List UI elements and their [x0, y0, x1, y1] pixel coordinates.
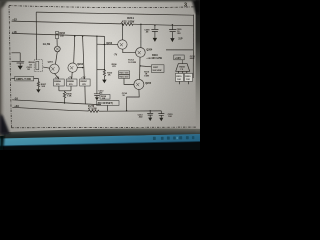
transistor Q201 — [50, 64, 60, 74]
label R203 102 — [59, 33, 65, 38]
bottom black band — [0, 142, 206, 159]
wire R214 to Q205 base — [124, 78, 134, 84]
ground C212 — [95, 97, 99, 100]
capacitor C212 — [94, 94, 100, 98]
label C210 — [190, 56, 196, 60]
wire right feed — [166, 49, 193, 51]
ground C201 — [18, 66, 23, 70]
wire Q202 base stub — [77, 67, 82, 69]
resistor R208 — [63, 91, 65, 103]
wire Q202 emitter — [71, 72, 74, 79]
bus2 +22 rail — [12, 21, 194, 26]
box DC OFFSET — [97, 101, 119, 106]
transistor Q203 — [118, 40, 127, 49]
wire ampl right — [34, 79, 39, 82]
bus3 +18 rail — [12, 33, 105, 36]
capacitor C215 — [158, 111, 164, 118]
capacitor C213 — [147, 111, 153, 118]
wire junction x97 x104 — [97, 69, 105, 71]
ground R207 — [36, 89, 40, 92]
band dark under paper (curved top edge) — [0, 129, 200, 139]
diode D201 — [55, 46, 61, 52]
left edge dark strip — [0, 0, 5, 136]
rail +33 — [12, 107, 161, 111]
bottom bands rotated — [0, 134, 206, 158]
ground C213 — [148, 118, 152, 121]
capacitor C208 — [151, 25, 158, 38]
transistor Q202 — [68, 63, 77, 72]
resistor R210 — [103, 70, 105, 80]
label C215 — [168, 114, 174, 118]
resistor R202 body — [36, 61, 39, 69]
label R215 — [144, 71, 150, 77]
label R216 — [152, 54, 163, 60]
wire Q204 collector — [140, 24, 142, 47]
label R208 — [66, 93, 72, 97]
label C212 — [98, 90, 104, 94]
bus1 corner drop wire — [35, 12, 37, 60]
wire R202 to Q201 base — [43, 67, 50, 68]
label R212 — [128, 60, 136, 65]
wire Q204 emitter down to Q205 — [139, 57, 141, 79]
label R206 — [112, 64, 118, 68]
ground C215 — [159, 118, 163, 121]
wire Q203 emitter to Q204 base — [123, 49, 136, 53]
schematic ink — [9, 3, 196, 128]
label C201 — [27, 67, 33, 71]
Q206 legs — [179, 71, 189, 84]
label C214 — [122, 92, 128, 97]
wire Q201 emitter — [55, 73, 59, 79]
box R218 — [100, 95, 110, 100]
resistor R205B box — [67, 79, 78, 86]
resistor R205A box — [54, 79, 65, 86]
rail -16 — [12, 100, 101, 105]
bottom-left corner shadow — [0, 114, 10, 134]
resistor R209 box — [80, 79, 90, 86]
wires emitter resistors join — [59, 86, 71, 91]
top-left corner dark — [0, 0, 8, 9]
wire vertical x104 — [103, 36, 105, 70]
box AMPL-T 200 — [15, 76, 34, 81]
film grain — [0, 0, 200, 136]
label R207 — [41, 84, 47, 88]
paper background — [0, 0, 200, 136]
capacitor C201 loop — [12, 53, 25, 66]
bus1 top rail — [36, 12, 193, 15]
wire vertical x97 — [96, 36, 98, 94]
wire wiper — [106, 105, 108, 110]
wire vertical x82 — [83, 36, 86, 104]
wire Q205 emitter — [127, 89, 140, 110]
border top dash-dot — [9, 6, 196, 8]
wire D201 to Q201 collector — [55, 52, 57, 64]
border left dash-dot — [9, 6, 11, 128]
ground C208 — [153, 38, 157, 42]
resistor R207 — [37, 82, 39, 90]
wire Q202 collector — [74, 36, 75, 63]
resistor box R219 — [175, 73, 183, 81]
top edge dark strip — [0, 0, 200, 3]
label R202 — [29, 62, 35, 66]
resistor boxes R213 R214 — [119, 71, 130, 75]
wire ampl left — [11, 78, 14, 80]
wire Q203 collector — [121, 24, 123, 40]
resistor R203 — [55, 32, 58, 39]
resistor R217 box — [151, 65, 164, 73]
label C208 — [144, 30, 150, 34]
taskbar blue band — [0, 134, 206, 146]
top-right corner dark — [192, 0, 200, 14]
label R211 472 1/2W — [122, 16, 135, 23]
resistor R211 zigzag in bus2 — [121, 23, 133, 26]
border bottom dash-dot — [11, 126, 196, 129]
taskbar icons — [153, 136, 194, 140]
transistor Q206 trapezoid — [176, 64, 190, 72]
box +12V — [174, 55, 184, 60]
wire R203 to D201 — [56, 39, 58, 47]
label C209 — [177, 29, 183, 35]
bottom-left corner black over bar — [0, 132, 5, 150]
transistor Q204 — [136, 48, 146, 58]
resistor box R220 — [184, 73, 192, 81]
ground C209 — [170, 38, 174, 42]
label R210 — [107, 73, 113, 77]
right vertical rail — [192, 15, 194, 78]
resistor R202 dashed box — [34, 60, 42, 72]
transistor Q205 — [134, 79, 144, 89]
ground R210 — [102, 80, 106, 84]
resistor R221 zigzag in +33 rail — [89, 110, 100, 113]
wire Q203 base line — [97, 43, 118, 46]
right edge dark strip — [196, 0, 200, 136]
label R221 270 1/2W — [88, 106, 97, 110]
label C213 — [138, 115, 144, 119]
wire Q206 top — [182, 60, 184, 64]
wire emitter node to R217 — [140, 65, 151, 68]
junction dots — [56, 23, 173, 111]
capacitor C209 — [169, 25, 176, 38]
